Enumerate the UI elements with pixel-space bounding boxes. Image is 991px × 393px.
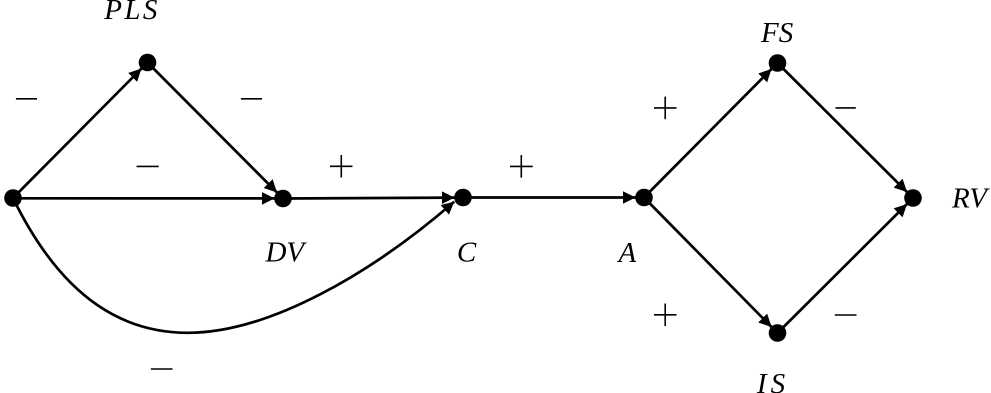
svg-text:FS: FS: [760, 17, 794, 49]
svg-text:IS: IS: [756, 368, 789, 393]
svg-text:C: C: [457, 237, 477, 269]
svg-text:RV: RV: [951, 182, 990, 214]
svg-text:PLS: PLS: [103, 0, 160, 26]
svg-text:DV: DV: [264, 237, 307, 269]
svg-text:A: A: [617, 237, 637, 269]
